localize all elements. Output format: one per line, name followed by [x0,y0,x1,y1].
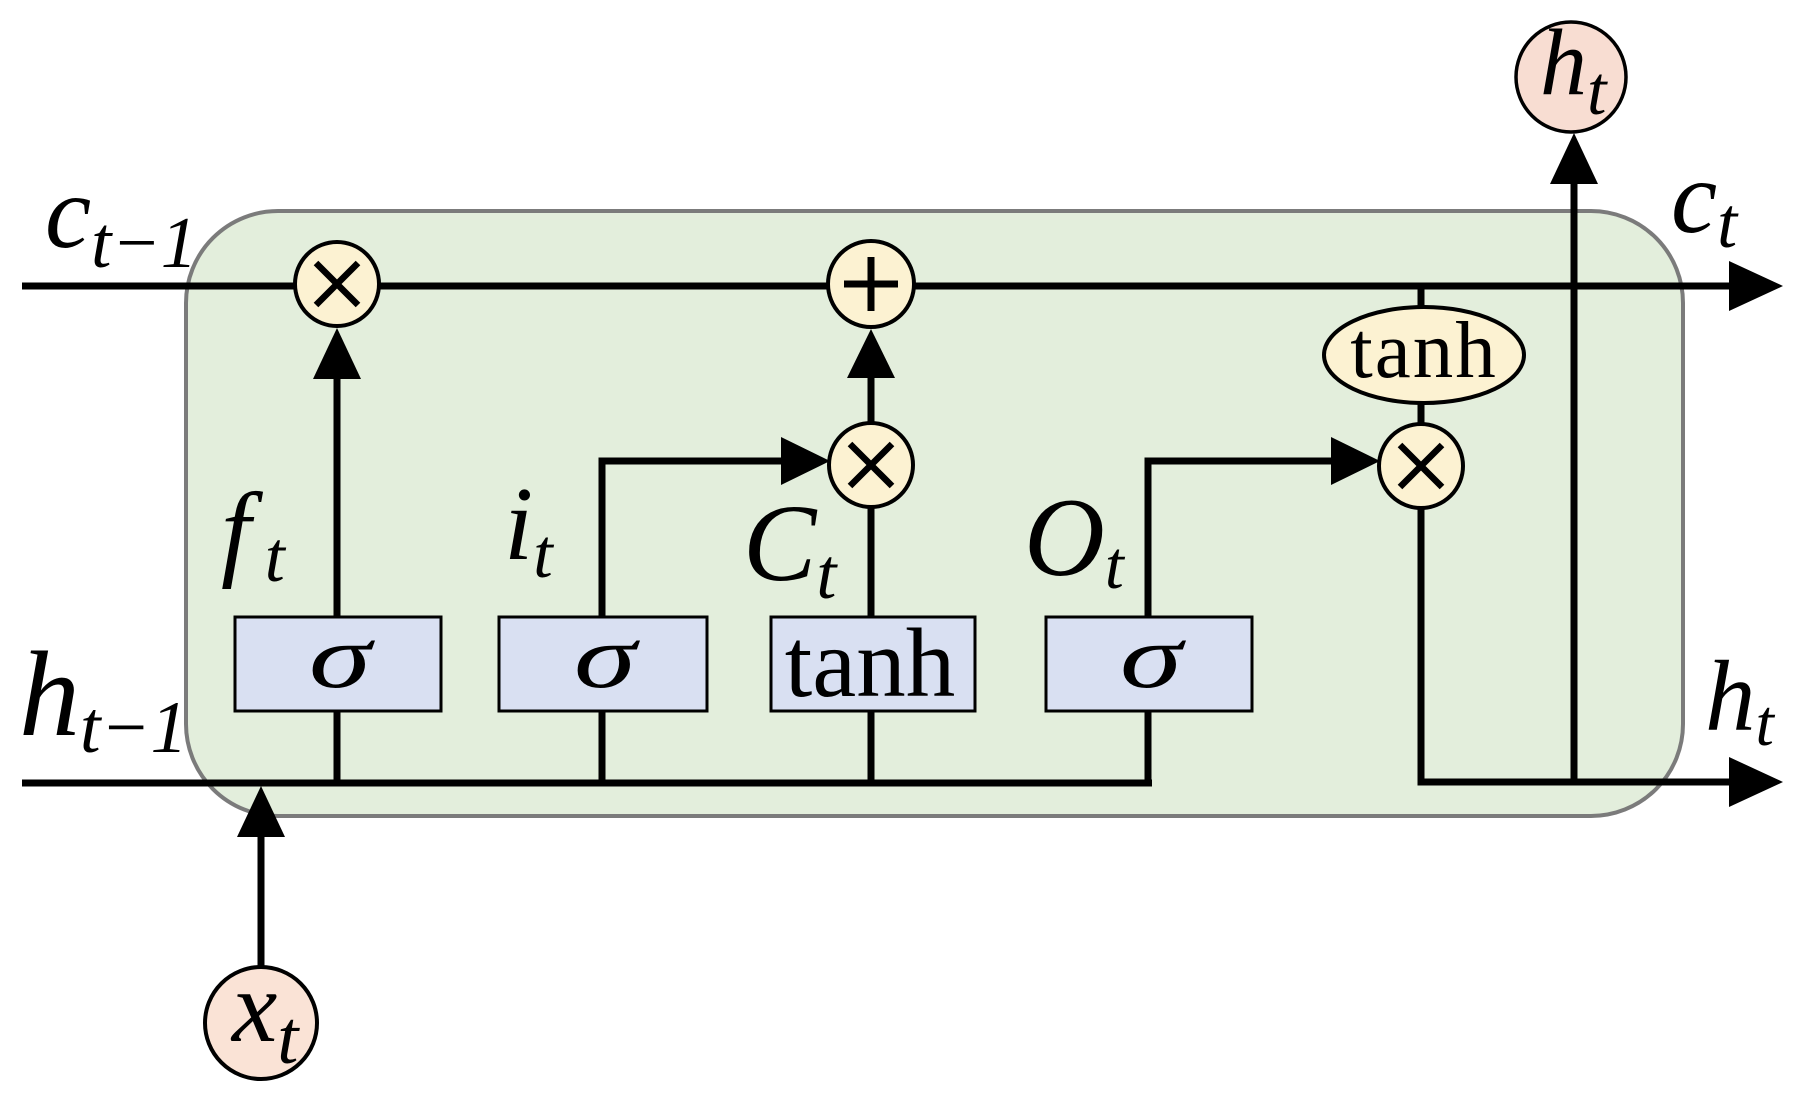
arrowhead into h_t node [1550,133,1598,184]
cell-state rail c_{t-1} to c_t [22,283,1740,290]
LSTM cell body (green rounded box) [186,211,1683,816]
forget gate wire f_t [334,372,341,617]
svg-text:σ: σ [574,606,641,706]
add node [828,241,914,327]
candidate wire from tanh box [868,505,875,617]
branch wire up to h_t node [1571,180,1578,783]
arrowhead f_t into multiply [313,328,361,379]
x_t input wire [258,832,265,967]
arrowhead i_t into multiply [781,437,830,485]
arrowhead c_t [1729,261,1783,311]
wire tanh ellipse down to multiply [1418,402,1425,427]
multiply node (candidate) [829,423,913,507]
gate input stub wires from h rail [334,711,341,783]
multiply node (output) [1379,424,1463,508]
tanh ellipse [1324,305,1524,403]
wire cell rail down into tanh ellipse [1418,289,1425,310]
x_t node [205,951,317,1080]
svg-text:tanh: tanh [1350,305,1497,395]
wire candidate multiply up to add node [868,374,875,423]
h_t node (top) [1516,11,1626,132]
gate box sigma (output) [1046,606,1252,711]
arrowhead into add node [847,329,895,378]
arrowhead x_t into h rail [237,786,285,837]
multiply node (forget) [295,242,379,326]
gate box tanh (candidate) [771,609,975,718]
input gate elbow wire i_t [602,461,786,617]
arrowhead O_t into multiply [1331,437,1380,485]
gate box sigma (forget) [235,606,441,711]
arrowhead h_t right [1729,757,1783,807]
output gate elbow wire O_t [1148,461,1336,617]
svg-text:σ: σ [309,606,376,706]
svg-text:tanh: tanh [785,609,955,718]
output wire from multiply node to h_t arrow [1421,500,1740,782]
gate box sigma (input) [499,606,707,711]
svg-text:σ: σ [1120,606,1187,706]
hidden-state input rail h_{t-1} [22,780,1152,787]
